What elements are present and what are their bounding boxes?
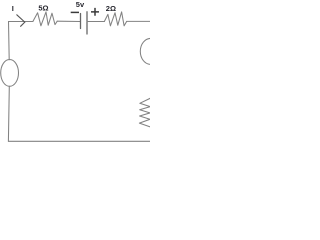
- wire top-left segment: [9, 21, 34, 23]
- battery plus sign: [91, 8, 99, 16]
- source circle left: [1, 60, 19, 87]
- wire R1 to battery: [57, 20, 80, 22]
- wire R2 to top-right: [127, 20, 151, 22]
- current arrow on top wire: [17, 15, 25, 26]
- wire left vertical lower: [7, 86, 10, 141]
- resistor R3 vertical zigzag (clipped at edge): [139, 98, 150, 127]
- resistor R1 5ohm zigzag: [33, 12, 57, 26]
- svg-text:5v: 5v: [76, 0, 85, 9]
- svg-text:2Ω: 2Ω: [106, 4, 116, 13]
- svg-text:I: I: [12, 4, 14, 13]
- wire bottom: [8, 140, 150, 142]
- battery V1 5v positive plate: [86, 12, 88, 34]
- source circle right (clipped at edge): [140, 38, 161, 64]
- wire battery to R2: [87, 21, 104, 23]
- svg-text:5Ω: 5Ω: [38, 4, 48, 13]
- battery minus sign: [71, 11, 79, 13]
- battery V1 5v negative plate: [80, 14, 82, 29]
- wire left vertical upper: [8, 22, 11, 60]
- resistor R2 2ohm zigzag: [104, 12, 126, 26]
